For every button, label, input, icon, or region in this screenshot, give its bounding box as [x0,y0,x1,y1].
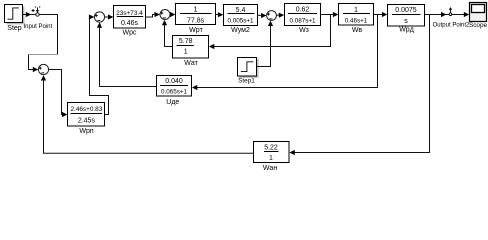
svg-text:Wв: Wв [352,27,363,34]
transfer block Wpn [68,103,105,136]
svg-text:5.4: 5.4 [236,7,246,14]
wire Wpd to Scope with mid arrow and output point [425,12,470,17]
svg-text:s: s [404,18,408,25]
svg-text:Step1: Step1 [238,78,255,85]
branch wire down to bottom feedback [289,15,429,156]
transfer block Wv [339,4,374,35]
svg-text:Wз: Wз [299,27,309,34]
svg-text:Output Point2: Output Point2 [433,23,470,29]
svg-text:1: 1 [354,7,358,14]
svg-text:0.087s+1: 0.087s+1 [289,17,316,24]
svg-text:Wат: Wат [184,60,198,67]
svg-text:1: 1 [269,155,273,162]
transfer block Wpc [114,6,146,37]
transfer block Ude [157,76,192,107]
wire Wpn to sum2 left [89,14,109,114]
summing junction sum1 [38,64,48,74]
svg-text:1: 1 [184,49,188,56]
svg-text:23s+73.4: 23s+73.4 [116,10,143,17]
svg-text:Wpп: Wpп [79,128,94,135]
svg-text:Scope: Scope [469,22,488,29]
wire Wv to Wpd with branch node [374,12,388,17]
svg-text:Step: Step [7,25,22,32]
output point marker [433,7,470,29]
transfer block Wpd [388,5,425,34]
svg-text:Input Point: Input Point [24,24,53,30]
svg-text:0.040: 0.040 [165,78,183,85]
svg-text:1: 1 [194,7,198,14]
wire sum4 to Wz [276,13,284,18]
wire sum2 to Wpc [105,14,114,19]
transfer block Wpt [176,4,216,35]
svg-text:Uде: Uде [166,99,179,106]
wire Wan to sum1 bottom [41,75,254,153]
svg-text:0.065s+1: 0.065s+1 [161,89,188,96]
svg-text:0.46s: 0.46s [121,20,139,27]
svg-text:0.62: 0.62 [296,7,310,14]
branch wire down to Wat [209,15,331,50]
wire Wat to sum3 bottom [162,20,173,47]
branch wire down to Ude input [192,15,378,91]
svg-text:2.46s+0.83: 2.46s+0.83 [70,106,102,113]
svg-text:Wpc: Wpc [123,30,138,37]
wire Step1 to sum4 bottom [257,21,274,67]
svg-text:Wpд: Wpд [399,27,414,34]
input point marker [24,6,53,29]
wire Wym2 to sum4 [258,13,267,18]
svg-text:2.45s: 2.45s [78,118,96,125]
wire sum3 to Wpt [170,12,175,17]
svg-text:Wан: Wан [263,165,278,172]
transfer block Wym2 [224,5,258,35]
svg-text:0.0075: 0.0075 [395,7,417,14]
svg-text:5.22: 5.22 [264,144,278,151]
step source Step1 [238,58,258,85]
svg-text:Wpт: Wpт [189,27,204,34]
transfer block Wan [254,142,290,173]
scope block [469,3,488,30]
svg-text:5.78: 5.78 [179,38,193,45]
transfer block Wz [285,4,321,35]
svg-text:0.46s+1: 0.46s+1 [345,18,368,25]
svg-text:0.005s+1: 0.005s+1 [227,18,254,25]
summing junction sum3 [160,10,170,20]
svg-text:Wум2: Wум2 [231,27,250,34]
transfer block Wat [173,36,209,68]
wire input point down-left to sum1 [29,15,58,73]
wire Wz to Wv with branch node [321,12,339,17]
svg-text:77.8s: 77.8s [187,17,205,24]
summing junction sum4 [267,11,277,21]
wire Step to input point [23,12,36,17]
wire Wpt to Wym2 [216,12,224,17]
wire Wpc to sum3 [146,12,160,17]
wire sum1 to Wpn [49,70,68,118]
wire Ude to sum2 bottom [97,22,157,86]
step source Step [5,5,24,33]
summing junction sum2 [94,12,104,22]
